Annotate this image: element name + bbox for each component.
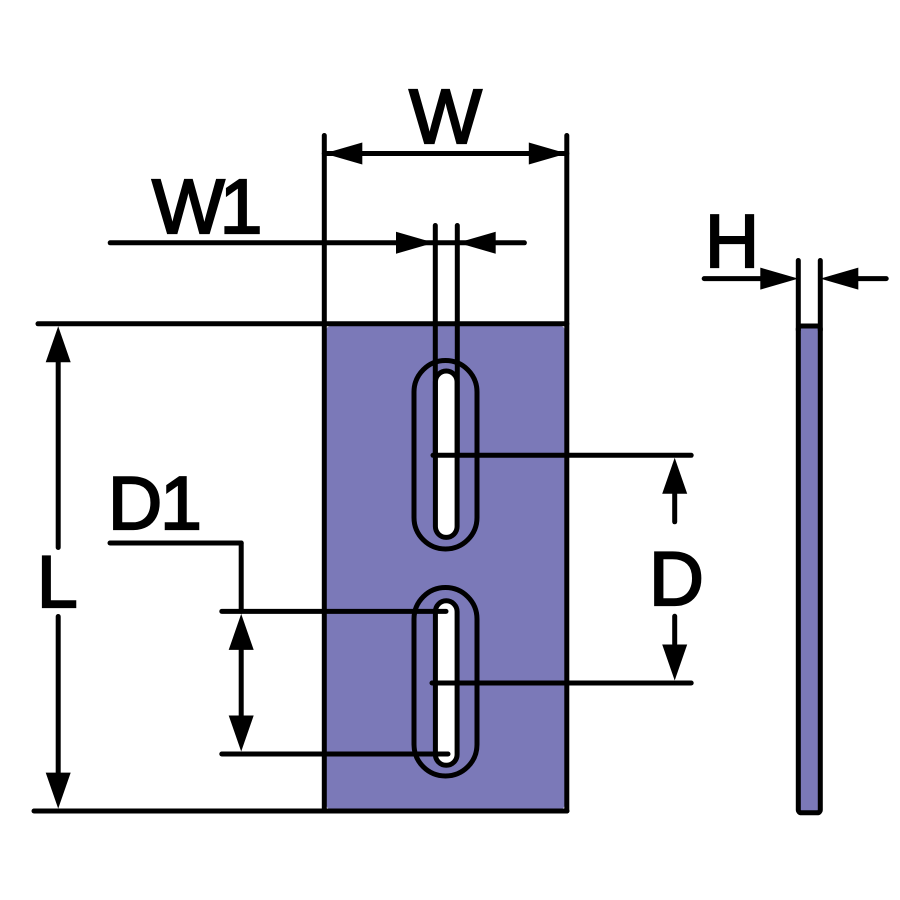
svg-text:L: L (37, 542, 78, 623)
D1 extension line bottom (slot2 bottom arc center) (222, 752, 448, 757)
slot 1 outer pill (414, 361, 477, 550)
W1 dimension line (110, 240, 524, 245)
D1 extension line top (slot2 top arc center) (222, 609, 446, 614)
D1 leader horizontal (110, 541, 241, 546)
D extension line top (slot1 center) (433, 453, 691, 458)
slot 2 outer pill (414, 588, 477, 777)
L arrow top (points up) (46, 326, 71, 362)
H arrow left (points right) (760, 268, 798, 290)
W arrow right (529, 143, 567, 165)
plate left edge / W extension line (322, 136, 327, 812)
D extension line bottom (slot2 center) (432, 681, 691, 686)
plate front view fill (326, 326, 565, 810)
L dimension line lower segment (56, 617, 61, 774)
slot 2 inner pill (435, 601, 457, 766)
plate bottom edge line (extends left for L) (34, 809, 567, 814)
H dimension line right tail (858, 276, 886, 281)
slot 1 inner pill (435, 371, 457, 537)
H arrow right (points left) (820, 268, 858, 290)
plate right edge / W extension line (564, 136, 569, 812)
D dimension shaft upper (672, 494, 677, 522)
W1 arrow left (points right) (396, 232, 434, 254)
D arrow down (662, 645, 687, 681)
H extension line right (818, 261, 823, 331)
svg-text:H: H (705, 199, 759, 283)
W dimension line (324, 151, 567, 156)
D1 arrow up (229, 614, 254, 650)
W1 extension line left (slot wall extended) (433, 226, 438, 456)
W1 arrow right (points left) (458, 232, 496, 254)
svg-text:W1: W1 (152, 164, 260, 250)
W arrow left (324, 143, 362, 165)
svg-text:D: D (649, 537, 704, 622)
plate top edge line (extends left for L) (38, 321, 567, 326)
D dimension shaft lower (672, 616, 677, 644)
D1 leader vertical (239, 543, 244, 611)
D1 arrow down (229, 716, 254, 752)
D1 dimension shaft (239, 650, 244, 716)
W1 extension line right (slot wall extended) (455, 226, 460, 456)
L arrow bottom (points down) (46, 773, 71, 809)
svg-text:D1: D1 (108, 461, 200, 545)
H extension line left (796, 261, 801, 331)
D arrow up (662, 458, 687, 494)
H dimension line left tail (704, 276, 762, 281)
side view plate (798, 326, 820, 813)
L dimension line upper segment (56, 362, 61, 548)
svg-text:W: W (409, 74, 482, 160)
